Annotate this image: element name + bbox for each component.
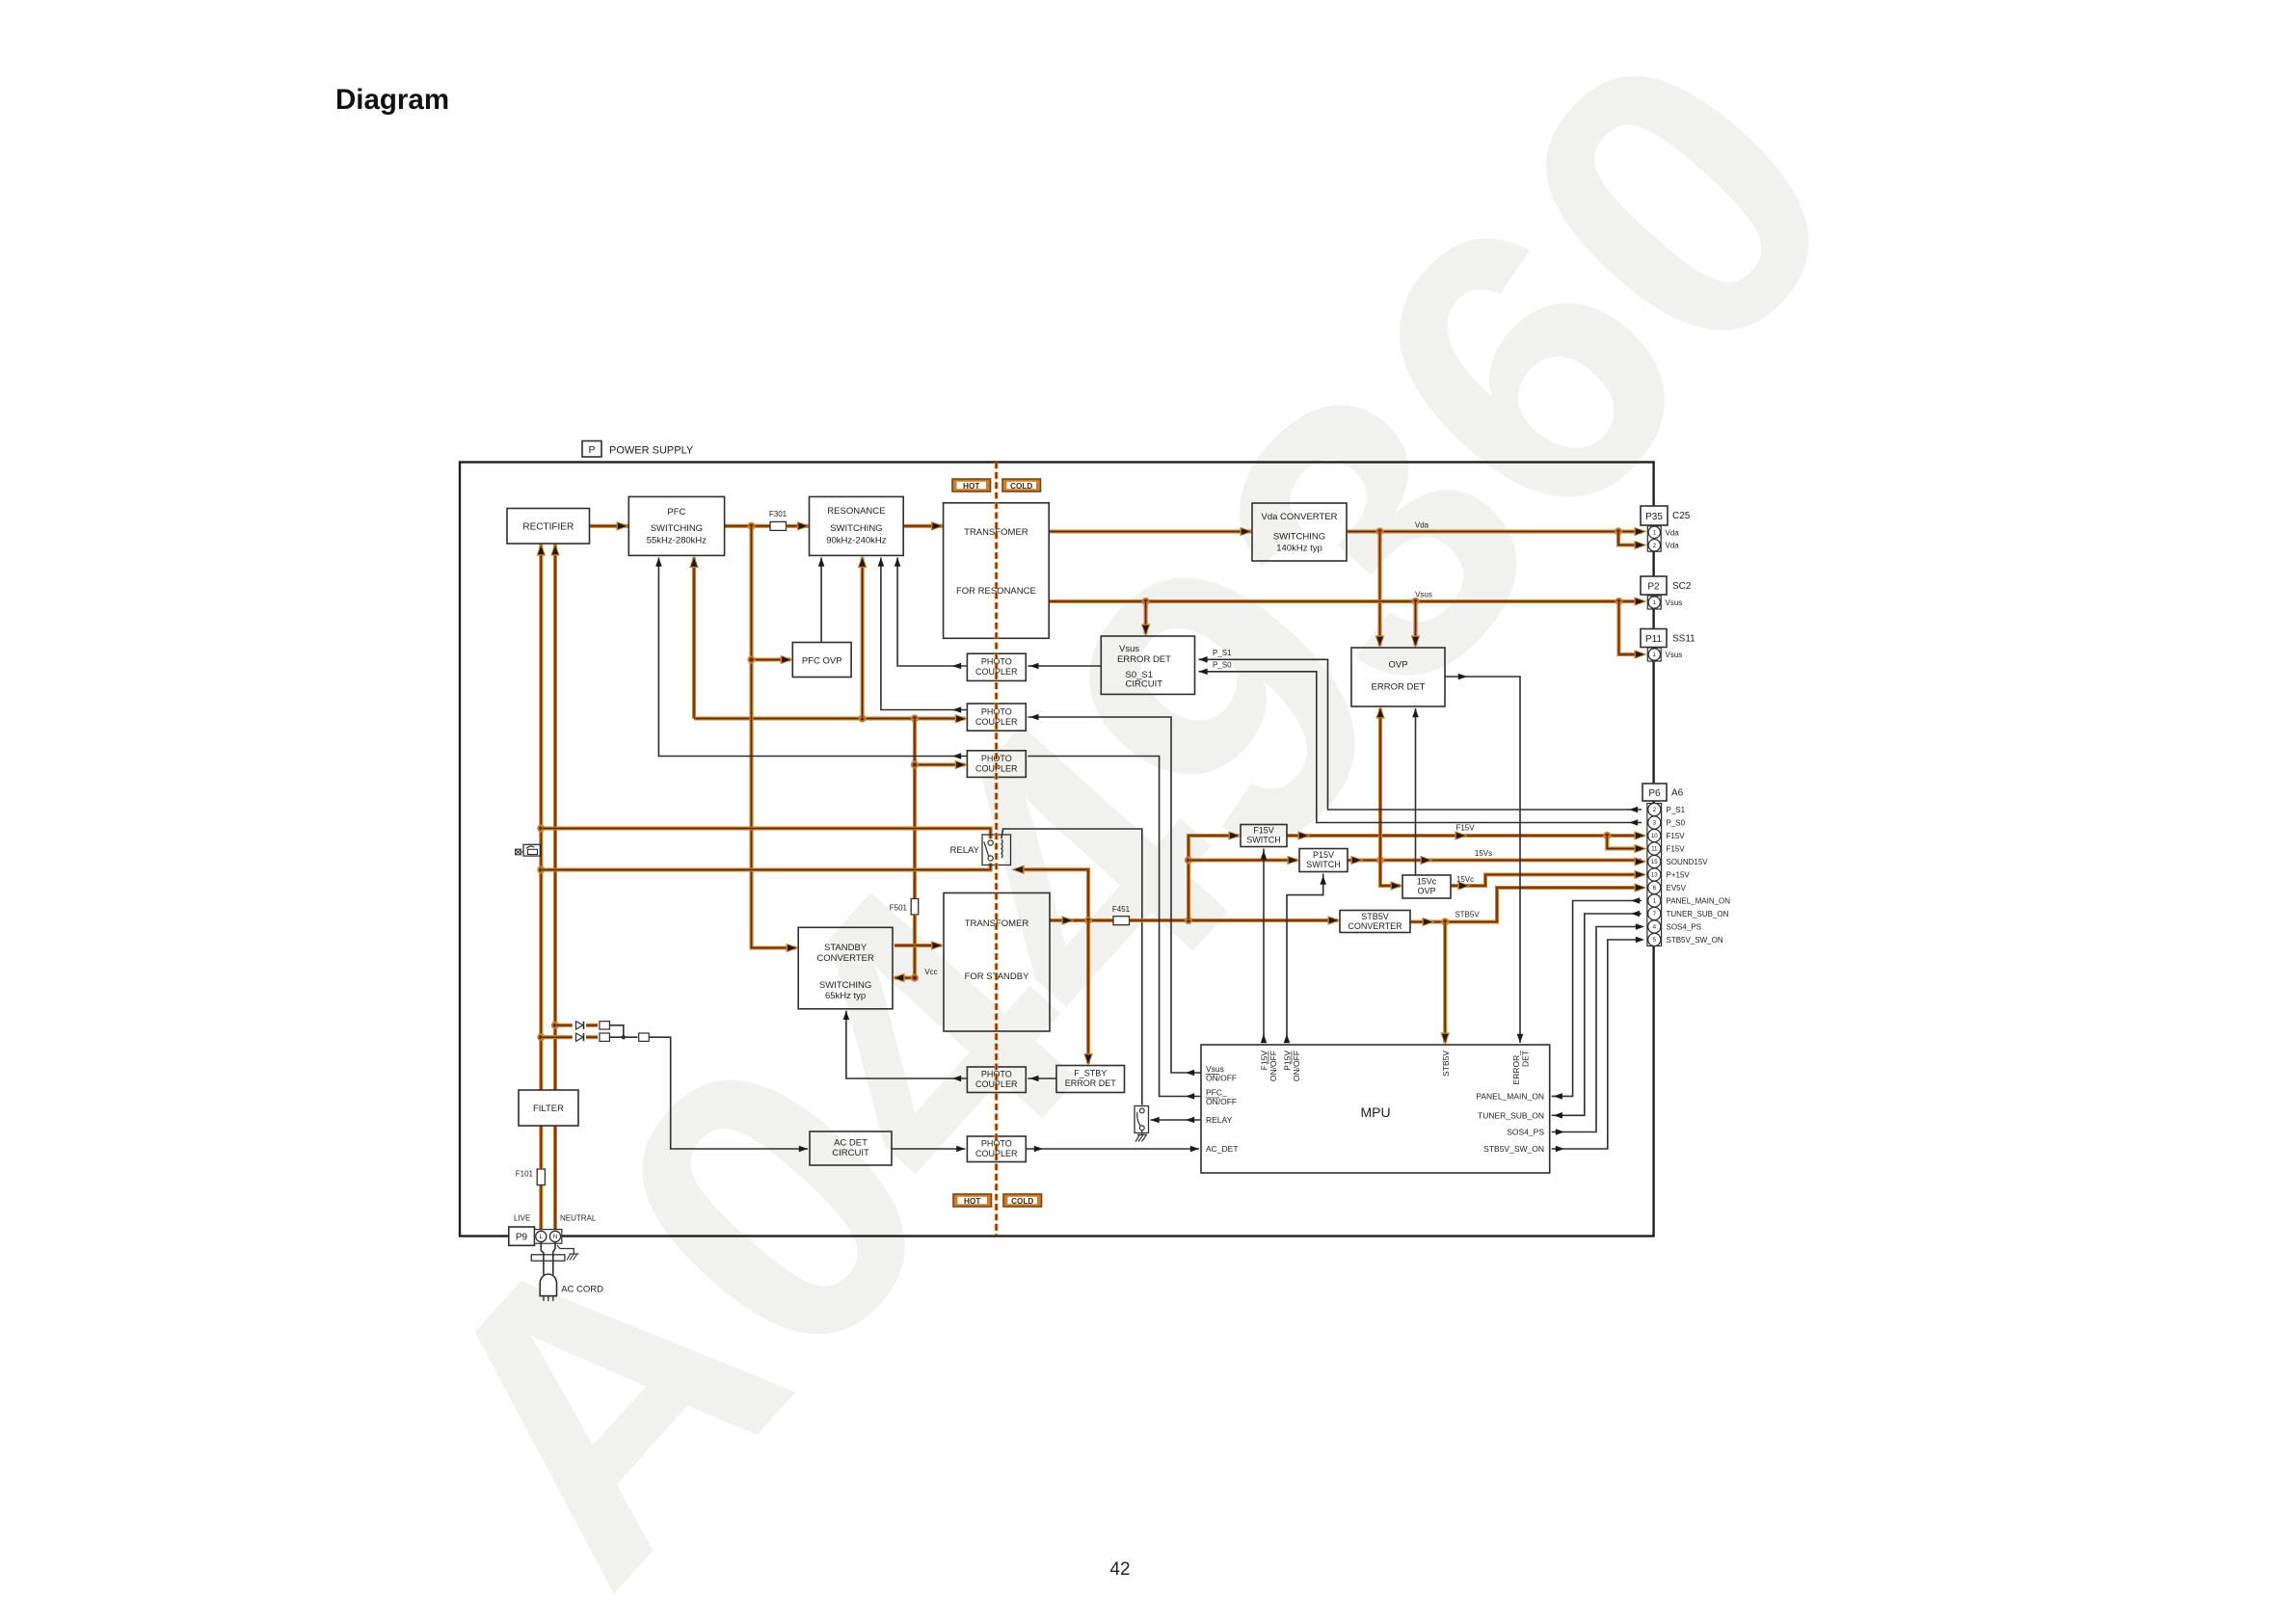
svg-text:POWER SUPPLY: POWER SUPPLY <box>609 445 694 457</box>
svg-text:STB5V: STB5V <box>1441 1051 1451 1077</box>
wire transformer Vda output to Vda converter <box>1049 527 1253 537</box>
svg-text:P6: P6 <box>1648 788 1661 799</box>
svg-text:P+15V: P+15V <box>1667 871 1691 880</box>
wire F451 to STB5V converter <box>1130 916 1341 925</box>
svg-text:Vsus: Vsus <box>1415 591 1432 599</box>
HOT/COLD isolation dashed line <box>995 463 999 1237</box>
svg-text:SOUND15V: SOUND15V <box>1667 858 1709 866</box>
resistor R831 <box>600 1022 610 1029</box>
svg-text:F501: F501 <box>890 904 908 913</box>
wire MPU PFC ON/OFF to photo coupler3 <box>1028 757 1201 1100</box>
svg-text:HOT: HOT <box>963 482 979 491</box>
svg-text:ON/OFF: ON/OFF <box>1268 1051 1278 1081</box>
svg-text:1: 1 <box>1653 599 1657 606</box>
svg-text:F15V: F15V <box>1667 845 1686 854</box>
block FILTER <box>519 1090 578 1126</box>
svg-text:RELAY: RELAY <box>950 845 980 856</box>
wire AC det circuit to photo coupler5 <box>892 1146 965 1153</box>
wire relay coil to driver switch <box>1001 829 1142 1105</box>
svg-text:MPU: MPU <box>1360 1104 1390 1120</box>
wire Vsus branch to P11 pin1 <box>1619 601 1647 659</box>
wire 15Vc OVP output to P6 pin13 <box>1451 870 1647 891</box>
svg-text:P11: P11 <box>1645 634 1662 645</box>
AC plug body <box>540 1274 556 1301</box>
svg-text:RECTIFIER: RECTIFIER <box>522 522 574 533</box>
svg-text:Vsus: Vsus <box>1206 1064 1224 1074</box>
svg-text:NEUTRAL: NEUTRAL <box>560 1214 597 1223</box>
connector P35 header <box>1641 506 1691 525</box>
block TRANSFOMER FOR RESONANCE <box>944 503 1050 639</box>
svg-text:Vsus: Vsus <box>1666 651 1683 659</box>
svg-text:Diagram: Diagram <box>335 84 449 116</box>
svg-text:SS11: SS11 <box>1672 634 1695 645</box>
wire diode branch B tap on LIVE <box>541 1035 572 1039</box>
wire photo coupler4 to standby converter <box>843 1011 968 1082</box>
svg-text:1: 1 <box>1653 652 1657 658</box>
svg-text:F301: F301 <box>769 510 788 519</box>
wire P15V switch output to P6 pin15 SOUND15V <box>1348 856 1647 866</box>
svg-text:STB5V_SW_ON: STB5V_SW_ON <box>1483 1144 1544 1154</box>
fuse F501 <box>890 899 919 916</box>
wire F15V branch to P6 pin11 <box>1607 836 1647 853</box>
svg-text:ERROR DET: ERROR DET <box>1117 654 1171 665</box>
svg-text:1: 1 <box>1653 530 1657 537</box>
wire Vda branch to P35 pin2 <box>1618 532 1647 550</box>
svg-text:OVP: OVP <box>1417 887 1435 896</box>
wire transformer Vsus output to connector P2 <box>1049 597 1647 606</box>
wire 15Vs branch down to 15Vc OVP <box>1380 861 1403 891</box>
wire F501 to Vcc junction <box>913 915 917 978</box>
wire NEUTRAL from FILTER up to RECTIFIER <box>550 543 560 1090</box>
svg-text:Vda: Vda <box>1415 521 1429 530</box>
svg-text:P_S1: P_S1 <box>1667 806 1686 814</box>
wire MPU RELAY output to driver switch <box>1151 1117 1202 1124</box>
connector P9 header <box>509 1227 535 1245</box>
block P15V SWITCH <box>1299 849 1348 872</box>
ground for relay driver switch <box>1135 1131 1147 1142</box>
wire Vcc into standby converter <box>892 973 919 983</box>
svg-text:7: 7 <box>1653 911 1657 918</box>
svg-text:P: P <box>588 444 595 456</box>
wire Vcc rail up to PFC bottom <box>689 555 699 719</box>
block STANDBY CONVERTER <box>798 927 893 1009</box>
svg-text:SWITCHING: SWITCHING <box>651 523 703 534</box>
diode D831 <box>576 1022 584 1029</box>
ground wire from P9 neutral side <box>557 1245 579 1261</box>
connector P9 pins L and N <box>535 1230 562 1244</box>
photo coupler 5 <box>967 1136 1026 1162</box>
svg-text:ON/OFF: ON/OFF <box>1292 1051 1301 1081</box>
wire NEUTRAL from P9 to FILTER <box>553 1127 557 1231</box>
svg-text:2: 2 <box>1653 807 1657 813</box>
svg-text:TUNER_SUB_ON: TUNER_SUB_ON <box>1478 1111 1544 1121</box>
svg-text:COLD: COLD <box>1010 482 1032 491</box>
svg-text:AC CORD: AC CORD <box>561 1285 603 1295</box>
svg-text:P2: P2 <box>1647 582 1660 593</box>
svg-text:2: 2 <box>1653 543 1657 549</box>
wire Vsus error det to photo coupler1 <box>1028 663 1101 670</box>
wire PFC rail to PFC OVP <box>752 526 800 953</box>
wire MPU TUNER_SUB_ON from P6 pin7 <box>1552 911 1642 1119</box>
svg-text:RESONANCE: RESONANCE <box>827 506 885 517</box>
wire F_STBY error det to photo coupler4 <box>1028 1076 1056 1082</box>
svg-text:Vda: Vda <box>1666 542 1680 550</box>
svg-text:SWITCHING: SWITCHING <box>830 523 882 534</box>
svg-text:SC2: SC2 <box>1672 581 1692 592</box>
wire photo coupler5 to MPU AC_DET <box>1026 1146 1199 1153</box>
wire Vda converter to connector P35 pin1 <box>1347 527 1647 537</box>
svg-text:F15V: F15V <box>1253 826 1274 836</box>
label COLD bottom <box>1003 1194 1042 1207</box>
block 15Vc OVP <box>1402 875 1451 898</box>
svg-text:ERROR DET: ERROR DET <box>1372 682 1426 693</box>
wire LIVE tap to relay contact <box>541 829 990 839</box>
svg-text:SWITCH: SWITCH <box>1306 860 1341 869</box>
svg-text:SWITCHING: SWITCHING <box>819 980 871 991</box>
connector P2 pin Vsus <box>1647 596 1682 609</box>
wire MPU P15V ON/OFF to P15V switch <box>1284 874 1326 1044</box>
wire resistor B to junction and resistor C <box>609 1035 637 1039</box>
svg-text:Vcc: Vcc <box>924 968 937 976</box>
wire MPU STB5V_SW_ON to P6 pin5 <box>1552 937 1644 1153</box>
svg-text:15Vs: 15Vs <box>1475 849 1492 858</box>
inrush limiter symbol on LIVE line <box>516 844 541 856</box>
svg-text:F15V: F15V <box>1455 824 1475 833</box>
svg-text:SWITCH: SWITCH <box>1246 836 1281 845</box>
block AC DET CIRCUIT <box>810 1131 892 1165</box>
wire Vcc rail up to RESONANCE bottom <box>858 555 868 719</box>
block RECTIFIER <box>507 509 590 545</box>
svg-text:N: N <box>553 1234 558 1240</box>
wire F15V switch output to P6 pin10 <box>1287 831 1647 840</box>
wire STB5V to P6 pin6 EV5V <box>1441 883 1647 925</box>
block RESONANCE SWITCHING <box>810 496 904 555</box>
block TRANSFOMER FOR STANDBY <box>944 893 1050 1032</box>
wire diode branch A tap on NEUTRAL <box>555 1024 573 1027</box>
wire resistor A to junction <box>609 1025 623 1037</box>
wire standby rail up to F15V switch <box>1185 831 1241 920</box>
wire P_S0 from P6 pin3 to Vsus error det <box>1199 669 1642 826</box>
svg-text:AC DET: AC DET <box>834 1138 868 1149</box>
wire Vcc rail branch to photo coupler 3 <box>915 760 968 770</box>
svg-text:3: 3 <box>1653 820 1657 827</box>
svg-text:AC_DET: AC_DET <box>1206 1144 1239 1154</box>
block Vda CONVERTER <box>1252 503 1347 561</box>
svg-text:EV5V: EV5V <box>1667 884 1687 892</box>
power supply outer border <box>460 463 1654 1237</box>
svg-text:STB5V: STB5V <box>1361 912 1389 921</box>
svg-text:P_S1: P_S1 <box>1213 649 1232 657</box>
wire STB5V converter output <box>1410 918 1445 927</box>
svg-text:1: 1 <box>1653 898 1657 905</box>
wire photo coupler3 to PFC <box>655 558 967 759</box>
diode D832 <box>576 1033 584 1041</box>
svg-text:5: 5 <box>1653 937 1657 944</box>
svg-text:SOS4_PS: SOS4_PS <box>1507 1128 1544 1137</box>
wire Vcc vertical through F501 to standby converter <box>911 719 919 899</box>
wire OVP error det to MPU ERROR_DET <box>1445 674 1523 1043</box>
wire standby transformer output to fuse F451 <box>1050 916 1113 925</box>
svg-text:6: 6 <box>1653 885 1657 891</box>
svg-text:PANEL_MAIN_ON: PANEL_MAIN_ON <box>1667 897 1731 906</box>
wire MPU SOS4_PS to P6 pin4 <box>1552 923 1644 1135</box>
svg-text:PANEL_MAIN_ON: PANEL_MAIN_ON <box>1476 1092 1544 1102</box>
relay RL901 <box>950 835 1011 865</box>
svg-text:CIRCUIT: CIRCUIT <box>832 1148 869 1158</box>
svg-text:P35: P35 <box>1645 512 1663 522</box>
svg-text:STANDBY: STANDBY <box>824 943 868 953</box>
svg-text:LIVE: LIVE <box>514 1214 530 1223</box>
svg-text:A6: A6 <box>1671 788 1684 799</box>
label HOT bottom <box>953 1194 992 1207</box>
svg-text:Vsus: Vsus <box>1666 599 1683 607</box>
wire MPU F15V ON/OFF to F15V switch <box>1261 849 1268 1044</box>
relay driver switch near MPU <box>1135 1106 1149 1133</box>
svg-text:DET: DET <box>1521 1051 1531 1067</box>
svg-text:15Vc: 15Vc <box>1456 875 1474 884</box>
wire P_S1 from P6 pin2 to Vsus error det <box>1199 656 1642 812</box>
svg-text:F15V: F15V <box>1667 832 1686 840</box>
wire LIVE from F101 to FILTER <box>539 1127 543 1170</box>
svg-text:4: 4 <box>1653 924 1657 931</box>
svg-text:42: 42 <box>1109 1559 1130 1580</box>
svg-text:15: 15 <box>1651 859 1658 865</box>
photo coupler 2 <box>967 704 1026 731</box>
svg-text:55kHz-280kHz: 55kHz-280kHz <box>647 536 707 546</box>
svg-text:TUNER_SUB_ON: TUNER_SUB_ON <box>1667 910 1729 918</box>
connector P11 header <box>1641 629 1695 648</box>
svg-text:RELAY: RELAY <box>1206 1115 1233 1125</box>
photo coupler 3 <box>967 751 1026 778</box>
wire to AC det circuit <box>649 1037 808 1152</box>
wire PFC OVP to RESONANCE bottom <box>818 558 825 643</box>
label COLD top <box>1002 479 1041 492</box>
svg-text:P9: P9 <box>516 1233 528 1243</box>
block PFC SWITCHING <box>628 496 724 555</box>
svg-text:CIRCUIT: CIRCUIT <box>1126 679 1163 690</box>
svg-text:STB5V: STB5V <box>1455 911 1480 919</box>
connector P11 pin Vsus <box>1647 648 1682 661</box>
svg-text:P15V: P15V <box>1283 1051 1293 1071</box>
svg-text:F101: F101 <box>516 1170 534 1179</box>
wire LIVE from FILTER up to RECTIFIER <box>537 543 547 1090</box>
wire standby rail to relay coil <box>1011 865 1088 921</box>
svg-text:13: 13 <box>1651 872 1658 879</box>
wire relay contact return to LIVE <box>541 864 990 870</box>
block F_STBY ERROR DET <box>1056 1066 1125 1093</box>
wire diode B to resistor B <box>586 1035 598 1039</box>
svg-text:11: 11 <box>1651 846 1658 853</box>
svg-text:90kHz-240kHz: 90kHz-240kHz <box>826 536 887 546</box>
wire standby converter to standby transformer <box>894 941 944 950</box>
wire branch into PFC OVP box <box>747 655 793 665</box>
svg-text:CONVERTER: CONVERTER <box>816 953 874 964</box>
svg-text:L: L <box>540 1234 544 1240</box>
svg-text:PFC: PFC <box>667 507 685 518</box>
svg-text:15Vc: 15Vc <box>1417 877 1437 887</box>
svg-text:P_S0: P_S0 <box>1213 661 1232 670</box>
block MPU <box>1201 1045 1550 1173</box>
svg-text:PFC OVP: PFC OVP <box>802 656 842 667</box>
svg-text:ERROR_: ERROR_ <box>1511 1051 1521 1085</box>
svg-text:ON/OFF: ON/OFF <box>1206 1074 1237 1083</box>
svg-text:ERROR DET: ERROR DET <box>1065 1078 1117 1088</box>
wire STB5V down to MPU <box>1440 922 1450 1046</box>
svg-text:P_S0: P_S0 <box>1667 819 1686 828</box>
AC cord strain relief bar <box>531 1255 565 1261</box>
svg-text:PFC_: PFC_ <box>1206 1088 1227 1098</box>
svg-text:OVP: OVP <box>1388 660 1407 671</box>
photo coupler 1 <box>967 653 1026 680</box>
resistor R833 <box>639 1033 650 1041</box>
svg-text:F451: F451 <box>1112 905 1131 914</box>
wire Vda branch down to OVP error det <box>1375 532 1385 649</box>
wire PFC to fuse F301 <box>725 522 770 530</box>
svg-text:FILTER: FILTER <box>533 1104 564 1114</box>
svg-text:F15V: F15V <box>1260 1051 1269 1071</box>
wire Vsus branch down to Vsus error det <box>1141 601 1151 637</box>
wire LIVE vertical from P9 to F101 <box>539 1185 543 1231</box>
svg-text:SWITCHING: SWITCHING <box>1273 532 1325 543</box>
wire 15Vc OVP to OVP error det <box>1412 708 1419 875</box>
wire 15Vs branch up to OVP error det bottom <box>1375 705 1385 860</box>
wire branch to P15V switch <box>1188 856 1300 865</box>
photo coupler 4 <box>967 1067 1026 1093</box>
fuse F101 <box>516 1169 546 1185</box>
fuse F451 <box>1112 905 1131 925</box>
svg-text:SOS4_PS: SOS4_PS <box>1667 923 1701 932</box>
wire Vcc rail to photo coupler 2 <box>694 714 968 724</box>
label box P POWER SUPPLY <box>582 441 694 458</box>
block Vsus ERROR DET S0_S1 CIRCUIT <box>1101 636 1194 694</box>
wire standby rail down to F_STBY error det <box>1083 920 1093 1066</box>
svg-text:Vda CONVERTER: Vda CONVERTER <box>1261 512 1337 522</box>
svg-text:Vda: Vda <box>1666 528 1680 537</box>
svg-text:140kHz typ: 140kHz typ <box>1276 544 1322 554</box>
svg-text:CONVERTER: CONVERTER <box>1348 921 1402 931</box>
connector P6 header <box>1642 784 1684 801</box>
svg-text:C25: C25 <box>1672 511 1691 521</box>
wire MPU Vsus ON/OFF to photo coupler2 <box>1028 714 1201 1077</box>
wire RESONANCE to resonance transformer <box>903 521 944 531</box>
block PFC OVP <box>792 643 851 678</box>
wire diode A to resistor A <box>586 1024 598 1027</box>
label HOT top <box>952 479 991 492</box>
svg-text:Vsus: Vsus <box>1119 644 1139 654</box>
wire F301 to RESONANCE <box>787 521 811 531</box>
svg-text:STB5V_SW_ON: STB5V_SW_ON <box>1667 936 1723 945</box>
block F15V SWITCH <box>1241 825 1287 847</box>
svg-text:COLD: COLD <box>1011 1197 1033 1206</box>
resistor R832 <box>600 1033 610 1041</box>
wire MPU PANEL_MAIN_ON from P6 pin1 <box>1552 897 1642 1099</box>
wire P9 to AC plug <box>541 1242 555 1275</box>
connector P35 pins Vda <box>1647 526 1679 551</box>
block STB5V CONVERTER <box>1340 911 1410 933</box>
block OVP ERROR DET <box>1351 648 1445 706</box>
fuse F301 <box>769 510 788 530</box>
wire RECTIFIER to PFC <box>590 521 629 531</box>
svg-text:10: 10 <box>1651 833 1658 839</box>
svg-text:65kHz typ: 65kHz typ <box>825 991 866 1001</box>
connector P2 header <box>1641 576 1692 595</box>
svg-text:P15V: P15V <box>1313 850 1334 860</box>
wire Vsus branch down to OVP error det <box>1411 601 1421 649</box>
svg-text:F_STBY: F_STBY <box>1074 1069 1107 1078</box>
connector P6 pin strip <box>1647 803 1730 945</box>
wire photo coupler2 to RESONANCE <box>878 558 968 713</box>
svg-text:HOT: HOT <box>964 1197 980 1206</box>
svg-text:ON/OFF: ON/OFF <box>1206 1097 1237 1106</box>
wire photo coupler1 to RESONANCE <box>894 558 968 670</box>
